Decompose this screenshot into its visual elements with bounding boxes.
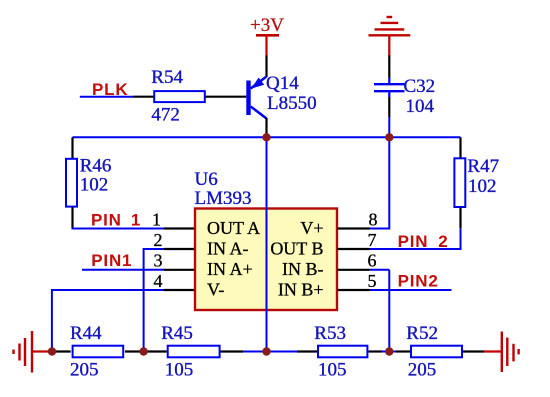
wire pin2 stub black [164,248,195,250]
svg-text:IN A-: IN A- [207,238,249,258]
svg-text:OUT A: OUT A [207,218,260,238]
pin label V- [207,279,224,299]
resistor R47 [454,158,465,207]
wire pin6 stub black [337,269,370,271]
wire ground to C32 black [388,56,390,78]
svg-text:R45: R45 [161,323,193,344]
wire PLK blue [80,96,133,98]
resistor R52 [411,346,462,358]
svg-text:IN A+: IN A+ [207,259,253,279]
pin number 7 [368,230,377,250]
wire pin3 stub black [164,269,195,271]
value 205 (R52) [408,360,437,381]
wire pin7 stub black [337,248,370,250]
ground (bottom left) [14,331,53,373]
svg-text:R52: R52 [406,323,438,344]
svg-text:R46: R46 [80,156,112,177]
label R44 [70,323,102,344]
label LM393 [195,188,252,209]
net label PIN2 [398,272,439,291]
wire R46 to pin1 corner black [71,207,73,229]
svg-text:OUT B: OUT B [270,238,323,258]
node junction pin2 bottom [139,347,147,355]
wire Q14 collector net blue (crosses U6) [266,137,268,351]
wire bottom rail blue middle [243,351,297,353]
label Q14 [266,73,299,94]
wire PLK to R54 black [133,96,155,98]
node junction pin6 bottom [385,347,393,355]
label R45 [161,323,193,344]
label R52 [406,323,438,344]
wire R52 to ground black [463,350,484,352]
net label PIN1 [91,251,132,270]
pin label IN B- [282,259,324,279]
wire junction blue segment [382,351,396,353]
svg-text:PIN2: PIN2 [398,272,439,291]
svg-text:102: 102 [468,176,497,197]
pin number 5 [368,271,377,291]
transistor Q14 [246,77,266,119]
resistor R46 [66,159,77,207]
resistor R45 [168,346,220,358]
resistor R53 [318,346,367,358]
svg-text:R44: R44 [70,323,102,344]
label R46 [80,156,112,177]
value 472 [151,105,180,126]
value 105 (R45) [165,360,194,381]
wire C32 lower lead black [388,98,390,118]
wire R45 lead black [221,350,243,352]
label R54 [151,67,183,88]
ground (top, earth) [369,17,411,57]
wire R44 to R45 black [125,350,167,352]
wire emitter lead black [265,56,267,78]
net label PLK [92,80,128,99]
wire pin7 net blue [370,228,461,250]
svg-text:3: 3 [154,251,163,271]
svg-text:R53: R53 [314,323,346,344]
value 205 (R44) [70,360,99,381]
wire pin1 net blue [72,228,165,230]
svg-text:+3V: +3V [250,15,284,36]
pin label IN A- [207,238,249,258]
net label PIN 2 [398,232,449,251]
value 102 (R46) [80,175,109,196]
wire pin5 net blue [370,289,452,291]
resistor R44 [73,346,124,358]
pin number 8 [369,210,378,230]
pin label IN A+ [207,259,253,279]
svg-text:105: 105 [165,360,194,381]
node junction ground left [48,347,56,355]
svg-text:R54: R54 [151,67,183,88]
wire Q14 collector lead black [265,118,267,135]
label R47 [467,156,499,177]
power +3V bar symbol [256,35,279,56]
svg-text:PIN1: PIN1 [91,251,132,270]
svg-text:V+: V+ [300,218,323,238]
wire pin8 net blue [370,137,390,229]
wire bottom black to R44 [52,350,71,352]
svg-text:LM393: LM393 [195,188,252,209]
svg-text:104: 104 [406,96,435,117]
svg-text:PIN 1: PIN 1 [91,211,141,230]
value 102 (R47) [468,176,497,197]
svg-text:102: 102 [80,175,109,196]
pin label OUT B [270,238,323,258]
node junction top collector [262,133,270,141]
label L8550 [267,93,317,114]
label U6 [195,169,218,190]
pin number 1 [152,210,161,230]
wire to R52 black [396,350,410,352]
wire top rail blue [73,136,461,138]
label R53 [314,323,346,344]
wire pin3 net PIN1 blue [82,269,164,271]
node junction top cap [385,133,393,141]
op-amp U6 LM393 body [195,209,337,311]
wire pin8 stub black [337,227,370,229]
wire pin5 stub black [337,289,370,291]
value 105 (R53) [318,360,347,381]
value 104 [406,96,435,117]
wire top rail to R47 black [459,137,461,158]
wire pin1 stub black [164,227,195,229]
svg-text:205: 205 [408,360,437,381]
svg-text:Q14: Q14 [266,73,299,94]
svg-text:IN B+: IN B+ [278,279,324,299]
wire pin4 stub black [164,289,195,291]
svg-text:L8550: L8550 [267,93,317,114]
svg-text:2: 2 [154,230,163,250]
pin label OUT A [207,218,260,238]
svg-text:8: 8 [369,210,378,230]
node junction collector bottom [262,347,270,355]
resistor R54 [154,91,205,102]
pin number 3 [154,251,163,271]
pin number 4 [154,271,163,291]
pin label IN B+ [278,279,324,299]
svg-text:C32: C32 [404,76,436,97]
svg-text:205: 205 [70,360,99,381]
capacitor C32 [374,78,405,99]
svg-text:V-: V- [207,279,224,299]
power +3V label [250,15,284,36]
wire top rail to R46 black [71,137,73,158]
svg-text:IN B-: IN B- [282,259,324,279]
svg-text:7: 7 [368,230,377,250]
label C32 [404,76,436,97]
ground (bottom right) [484,332,519,373]
pin label V+ [300,218,323,238]
wire R54 to Q14 base black [206,96,247,98]
wire R53 to junction black [368,350,382,352]
wire C32 to top rail blue [388,117,390,137]
svg-text:5: 5 [368,271,377,291]
net label PIN 1 [91,211,141,230]
svg-text:R47: R47 [467,156,499,177]
svg-text:105: 105 [318,360,347,381]
svg-text:4: 4 [154,271,163,291]
wire pin4 net blue [52,289,164,352]
svg-text:1: 1 [152,210,161,230]
wire R53 lead black [297,350,317,352]
wire R47 to pin7 black [459,208,461,229]
pin number 6 [368,251,377,271]
pin number 2 [154,230,163,250]
wire pin6 net blue [370,270,390,352]
svg-text:6: 6 [368,251,377,271]
svg-text:U6: U6 [195,169,218,190]
svg-text:472: 472 [151,105,180,126]
wire pin2 net blue [144,248,164,352]
